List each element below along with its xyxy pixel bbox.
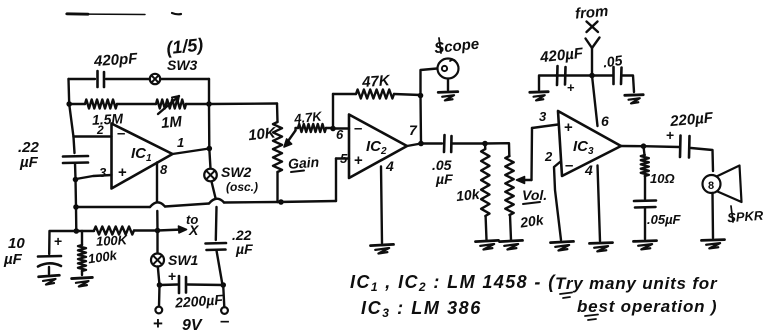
capacitor C .22 4F (series, right branch) (206, 242, 227, 245)
wire supply row right (592, 74, 613, 76)
capacitor C 220uF (679, 136, 682, 158)
node junction gain pot bottom (278, 199, 284, 205)
ground below .05 supply (625, 95, 644, 104)
svg-text:IC3 : LM 386: IC3 : LM 386 (361, 298, 482, 320)
wire X fork (586, 38, 600, 49)
wire 10k node to vol pot (485, 143, 509, 156)
resistor R 1.5M (85, 100, 117, 109)
arrow to X (158, 230, 183, 231)
wire feedback top left (333, 93, 356, 95)
ground below vol pot (500, 240, 523, 249)
svg-text:+: + (168, 268, 176, 284)
svg-text:Try many units for: Try many units for (555, 274, 718, 293)
svg-text:best operation ): best operation ) (577, 297, 717, 316)
op-amp IC1 triangle (112, 124, 173, 189)
svg-text:µF: µF (435, 171, 453, 187)
svg-text:–: – (220, 311, 229, 330)
svg-text:4: 4 (584, 162, 593, 178)
switch SW3 symbol (150, 74, 160, 84)
wire output to 10k node (453, 142, 486, 144)
wire output IC2 (407, 144, 442, 147)
switch SW1 symbol (151, 254, 164, 267)
wire top row right (161, 78, 210, 80)
svg-text:SW1: SW1 (168, 252, 199, 268)
wire plus node to 2200uF (160, 283, 178, 286)
wire 420uF to ground (539, 76, 556, 91)
svg-text:µF: µF (235, 241, 253, 257)
wire gain pot bottom (276, 172, 278, 202)
svg-text:SW3: SW3 (167, 57, 198, 73)
wire 10k to ground (484, 216, 487, 240)
svg-text:10K: 10K (247, 124, 277, 144)
wire between 1.5M and 1M (117, 103, 156, 105)
svg-text:6: 6 (336, 127, 344, 142)
potentiometer R 10K gain top corner (276, 104, 279, 123)
svg-text:10: 10 (8, 235, 25, 252)
node junction pin1 / right rail (207, 146, 213, 152)
svg-text:(1/5): (1/5) (165, 34, 204, 58)
ground below 100k (72, 277, 93, 286)
svg-text:100K: 100K (96, 232, 129, 249)
wire pin8 node to SW1 (156, 231, 158, 254)
wire feedback row extension to gain pot (209, 102, 277, 105)
svg-text:6: 6 (601, 113, 609, 129)
ground pin4 IC3 (590, 243, 613, 252)
wire pin8 below hop to node X row (156, 211, 159, 231)
wire zobel cap to ground (644, 209, 646, 240)
svg-text:+: + (118, 164, 127, 181)
resistor R 10k to ground (481, 149, 489, 216)
wire .05 to ground (623, 76, 635, 93)
resistor R 47K (356, 90, 394, 99)
svg-text:+: + (354, 152, 363, 169)
switch SW2 symbol (204, 169, 217, 182)
arrow wiper vol pot (521, 179, 532, 181)
wire 4.7K to pin6 (326, 127, 333, 129)
node junction 47K / scope tap (418, 93, 424, 99)
wire feedback riser (332, 94, 334, 129)
svg-text:9V: 9V (182, 317, 203, 334)
svg-text:+: + (54, 233, 62, 249)
wire pin4 IC2 to ground (381, 167, 382, 244)
wire left rail top segment (67, 79, 70, 104)
svg-text:(osc.): (osc.) (226, 180, 258, 194)
svg-text:SW2: SW2 (221, 164, 252, 180)
svg-text:from: from (574, 3, 609, 23)
svg-text:3: 3 (99, 165, 107, 180)
wire pin3 IC3 (532, 125, 558, 129)
op-amp IC2 triangle (349, 115, 407, 179)
op-amp IC3 triangle (558, 111, 621, 176)
ground below 420uF (530, 92, 549, 101)
wire mid row to pin5 riser (278, 201, 337, 202)
wire supply row left (556, 74, 592, 76)
wire SW2 down to hop (212, 182, 216, 199)
svg-text:3: 3 (539, 109, 547, 124)
wire 10ohm to .05uF (644, 176, 646, 199)
scan artifact dash top (172, 13, 181, 14)
capacitor C .05uF output (443, 135, 446, 152)
capacitor C .05 supply (612, 67, 615, 84)
node junction output IC3 (641, 143, 647, 149)
wire mid row to second hop (165, 204, 209, 207)
wire feedback top right (394, 94, 421, 95)
svg-text:4: 4 (385, 158, 394, 174)
node junction supply (589, 73, 595, 79)
node junction pin6 / feedback (330, 126, 336, 132)
terminal battery plus circle (155, 307, 162, 314)
wire right rail mid (208, 104, 211, 149)
wire mid row hop over SW2 line (209, 199, 224, 204)
wire top row left (69, 78, 96, 80)
wire pin5 riser (335, 159, 337, 202)
wire mid row from left rail (76, 206, 150, 208)
node junction 10k top (482, 141, 488, 147)
svg-text:.05µF: .05µF (647, 212, 682, 227)
wire scope tap up (421, 69, 438, 96)
wire speaker to ground (711, 193, 714, 238)
wire pin5 stub (336, 157, 349, 159)
wire cap to battery minus node (217, 251, 223, 286)
potentiometer R Vol 20k (505, 156, 513, 215)
svg-text:µF: µF (3, 251, 23, 268)
wire to 10uF cap (49, 231, 76, 254)
svg-text:–: – (565, 157, 573, 174)
arrow wiper of gain pot (286, 131, 296, 145)
wire left rail mid segment (69, 104, 73, 137)
capacitor C 10uF electrolytic (38, 255, 61, 258)
capacitor C 2200uF (178, 276, 181, 293)
svg-text:2200µF: 2200µF (174, 291, 224, 310)
resistor R 4.7K (298, 124, 326, 132)
node junction right rail / feedback row (206, 101, 212, 107)
resistor R 100K horizontal (94, 227, 134, 235)
svg-text:1M: 1M (160, 113, 183, 132)
svg-text:Vol.: Vol. (522, 187, 547, 203)
wire pin6 stub (333, 127, 349, 129)
svg-text:µF: µF (19, 154, 39, 171)
ground scope (438, 92, 458, 101)
svg-text:420pF: 420pF (92, 50, 138, 70)
capacitor C .05uF zobel (634, 199, 656, 202)
node junction 2200uF / minus rail (220, 282, 226, 288)
capacitor C 420pF (96, 71, 99, 87)
wire 100k stub (81, 231, 83, 245)
svg-text:2: 2 (96, 123, 104, 137)
resistor R 10ohm (644, 146, 645, 155)
wire 2200uF to minus node (188, 283, 224, 286)
wire pin4 IC3 to ground (598, 166, 601, 242)
text best underline (585, 315, 598, 321)
node junction pin3 / left rail (73, 177, 79, 183)
wire feedback row to right rail (186, 103, 209, 105)
wire feedback row stub left (69, 103, 85, 105)
potentiometer R 10K gain (273, 122, 282, 172)
svg-text:5: 5 (340, 151, 348, 166)
scope connector circle (438, 59, 459, 79)
ground IC2 pin4 (371, 244, 394, 253)
wire battery plus node to terminal (158, 285, 161, 307)
wire right rail to SW2 (209, 149, 210, 169)
svg-text:10k: 10k (455, 186, 481, 204)
capacitor C 420uF supply (556, 66, 559, 85)
node junction output IC2 (418, 141, 424, 147)
node junction pin8 / 100K row (155, 228, 161, 234)
wire mid row to gain pot bottom (224, 201, 278, 204)
svg-text:1: 1 (177, 135, 184, 150)
wire pin2 IC1 (74, 135, 112, 137)
svg-text:IC1 , IC2 : LM 1458 - (: IC1 , IC2 : LM 1458 - ( (350, 272, 556, 294)
svg-text:+: + (153, 314, 163, 333)
capacitor C .22uF in left rail (63, 155, 88, 158)
wire pin1 output IC1 (173, 149, 210, 155)
wire 100K to pin8 node (134, 229, 158, 231)
wire 100K left stub (76, 230, 94, 232)
wire output IC3 (621, 145, 644, 148)
ground pin2 IC3 (551, 241, 574, 250)
wire pin8 from IC1 bottom edge (156, 163, 158, 203)
wire SW1 to battery plus node (158, 267, 160, 286)
wire vol pot to ground (510, 215, 511, 240)
svg-text:10Ω: 10Ω (650, 171, 675, 186)
node X mark (587, 22, 599, 33)
ground below 10k (476, 240, 499, 249)
wire right rail top (208, 79, 210, 104)
node junction left rail / feedback row (66, 101, 72, 107)
svg-text:–: – (354, 120, 362, 137)
node junction battery plus / 2200uF (157, 282, 163, 288)
svg-text:8: 8 (708, 180, 714, 192)
scan artifact line top-left (66, 13, 145, 16)
resistor R 100k vertical (78, 245, 86, 271)
wire to battery minus terminal (223, 285, 224, 307)
wire scope stem (447, 79, 449, 90)
svg-text:Gain: Gain (287, 154, 319, 172)
svg-text:+: + (567, 80, 575, 95)
svg-text:2: 2 (544, 149, 553, 164)
ground zobel (634, 241, 657, 250)
wire pin6 IC3 (592, 76, 598, 127)
wire 100k to ground (81, 271, 83, 275)
svg-text:7: 7 (409, 122, 418, 138)
wire 220uF to speaker (691, 148, 713, 171)
arrow wiper of 1M (158, 96, 179, 114)
wire pin2 IC3 to ground (554, 162, 561, 240)
svg-text:4.7K: 4.7K (292, 108, 323, 126)
node junction left rail / 100K row (74, 228, 80, 234)
speaker SPKR symbol (703, 175, 721, 193)
wire scope tap down to output (419, 96, 422, 144)
terminal battery minus circle (221, 307, 228, 314)
wire mid row hop over pin8 line (150, 202, 165, 207)
svg-text:X: X (188, 222, 200, 238)
wire output to 220uF (644, 145, 680, 148)
wire 10uF to ground (48, 267, 50, 274)
wire left rail to C .22uF (74, 137, 75, 153)
wire wiper to pin3 riser (530, 128, 533, 180)
svg-text:.05: .05 (602, 52, 624, 71)
wire X to supply node (591, 48, 593, 76)
svg-text:–: – (117, 125, 125, 142)
potentiometer R 1M (156, 100, 186, 109)
svg-text:47K: 47K (361, 72, 392, 91)
ground speaker (702, 240, 725, 249)
wire pin3 IC1 (76, 175, 112, 179)
node junction left rail / mid row (73, 204, 79, 210)
svg-text:+: + (564, 119, 573, 136)
wire wiper to 4.7K (296, 128, 299, 131)
ground below 10uF (39, 275, 60, 285)
wire left rail below C .22uF (75, 163, 76, 231)
wire top row mid (106, 78, 149, 80)
svg-text:8: 8 (160, 162, 168, 177)
wire SW2 line below hop to cap (215, 207, 218, 240)
